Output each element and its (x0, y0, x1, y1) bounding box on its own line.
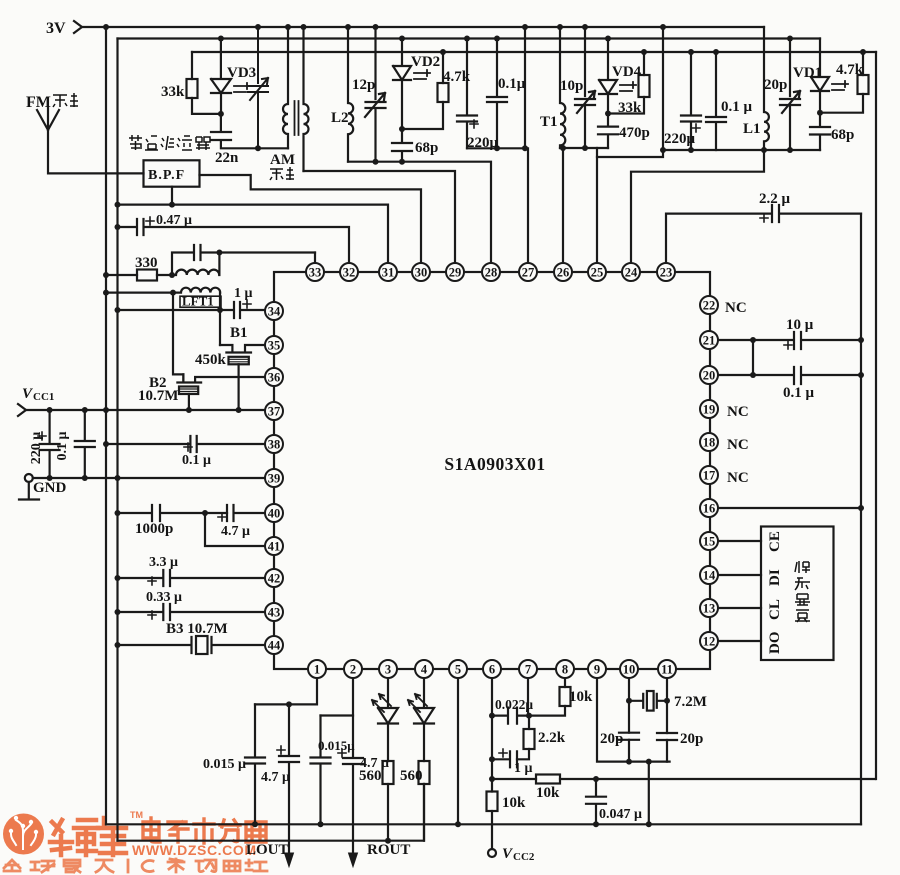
svg-text:68p: 68p (831, 127, 854, 143)
capacitor 1000p to pin 40 (118, 505, 228, 521)
arrow ROUT (349, 853, 358, 867)
svg-text:13: 13 (703, 601, 716, 615)
pin 33 (306, 263, 324, 281)
capacitor 0.015u (pin 2) (311, 716, 331, 825)
pin 22 (700, 296, 718, 314)
wire pin 24 to L1 tank (631, 150, 764, 263)
svg-text:20p: 20p (680, 731, 703, 747)
wire crystal net to supply line (648, 762, 650, 825)
node bottom ground junction (385, 838, 391, 844)
terminal VCC2 (488, 849, 496, 857)
inductor AM antenna right winding (304, 27, 309, 171)
diode VD4 varactor (599, 39, 617, 114)
pin 39 (265, 469, 283, 487)
wire pin 10 column (628, 678, 630, 762)
pin 14 (700, 566, 718, 584)
svg-text:41: 41 (268, 539, 281, 553)
svg-text:6: 6 (489, 662, 495, 676)
svg-text:22n: 22n (215, 150, 239, 166)
varicap 10p (575, 27, 595, 148)
wire right bus B (875, 52, 877, 779)
capacitor 470p (598, 114, 618, 149)
capacitor 4.7u (ROUT) (343, 716, 363, 859)
pin 27 (519, 263, 537, 281)
pin 8 (556, 660, 574, 678)
svg-text:220μ: 220μ (664, 131, 696, 147)
svg-text:17: 17 (703, 468, 716, 482)
pin 3 (379, 660, 397, 678)
svg-text:11: 11 (661, 662, 673, 676)
svg-text:19: 19 (703, 402, 716, 416)
diode VD3 varactor (211, 39, 231, 114)
svg-text:23: 23 (660, 265, 673, 279)
svg-text:0.015μ: 0.015μ (318, 738, 355, 753)
svg-text:31: 31 (382, 265, 395, 279)
svg-text:CC2: CC2 (513, 851, 535, 863)
svg-text:18: 18 (703, 435, 716, 449)
svg-text:4.7 μ: 4.7 μ (261, 770, 290, 785)
resistor 4.7k (VD2 branch) (402, 52, 443, 129)
wire 3V left drop x=106 (105, 27, 107, 824)
svg-text:29: 29 (449, 265, 462, 279)
capacitor 220u (first) (457, 39, 477, 149)
capacitor 0.047u (586, 779, 606, 824)
capacitor 0.022u (492, 708, 529, 724)
pin 1 (308, 660, 326, 678)
svg-text:DO: DO (767, 632, 783, 655)
wire L2 tank bottom to pin 28 (348, 162, 491, 263)
svg-text:40: 40 (268, 506, 281, 520)
svg-text:12: 12 (703, 634, 716, 648)
crystal B3 10.7M to pin 44 (118, 637, 266, 653)
svg-text:5: 5 (455, 662, 461, 676)
node VD4 junction (560, 111, 611, 152)
svg-text:DI: DI (767, 569, 783, 586)
svg-text:9: 9 (594, 662, 600, 676)
node 3V drop junction (660, 147, 694, 153)
varicap tuning (VD3 tank) (248, 27, 268, 148)
node LFT1 junctions (103, 290, 223, 313)
svg-text:NC: NC (725, 300, 747, 316)
svg-text:12p: 12p (352, 77, 375, 93)
wire T1 tank bottom (560, 147, 608, 149)
wire pin 14 (718, 574, 761, 576)
wire pin 12 (718, 640, 761, 642)
resistor 4.7k (VD1 branch) (820, 52, 863, 113)
svg-text:20: 20 (703, 368, 716, 382)
node VD1/L1 junctions (761, 110, 823, 153)
svg-text:32: 32 (343, 265, 356, 279)
pin 44 (265, 636, 283, 654)
resistor 2.2k (528, 716, 530, 729)
svg-text:16: 16 (703, 501, 716, 515)
svg-text:10: 10 (623, 662, 636, 676)
svg-text:NC: NC (727, 437, 749, 453)
wire pin 7 column (527, 678, 529, 716)
capacitor 0.33u to pin 43 (118, 604, 266, 620)
pin 29 (446, 263, 464, 281)
LED (pin 3) (378, 678, 398, 761)
svg-text:L2: L2 (331, 110, 349, 126)
svg-text:0.1 μ: 0.1 μ (55, 431, 70, 460)
svg-text:LOUT: LOUT (246, 842, 289, 858)
capacitor 1u (pin 6) (492, 751, 517, 767)
svg-text:1000p: 1000p (135, 521, 173, 537)
svg-text:33: 33 (309, 265, 322, 279)
block B.P.F (144, 160, 200, 186)
svg-text:0.1 μ: 0.1 μ (721, 99, 753, 115)
pin 6 (483, 660, 501, 678)
wire pin 16 (718, 507, 861, 509)
wire VCC1 line to pin 37 (26, 409, 266, 411)
pin 15 (700, 532, 718, 550)
pin 17 (700, 466, 718, 484)
svg-text:37: 37 (268, 404, 281, 418)
svg-text:VD3: VD3 (227, 65, 256, 81)
svg-text:3V: 3V (46, 20, 66, 37)
svg-text:4.7 μ: 4.7 μ (221, 524, 250, 539)
wire pin 11 column (666, 678, 668, 762)
pin 20 (700, 366, 718, 384)
svg-text:CE: CE (767, 531, 783, 552)
svg-text:AM: AM (270, 152, 295, 168)
svg-text:27: 27 (522, 265, 535, 279)
pin 41 (265, 537, 283, 555)
capacitor 220u (VCC1) (40, 410, 60, 478)
pin 16 (700, 499, 718, 517)
svg-text:B1: B1 (230, 325, 248, 341)
varicap 12p (365, 27, 386, 162)
wire pin 9 column (597, 678, 670, 762)
svg-text:VD1: VD1 (793, 65, 822, 81)
svg-text:0.33 μ: 0.33 μ (146, 590, 182, 605)
resistor 560 (pin 4) (419, 761, 430, 784)
svg-text:44: 44 (268, 638, 281, 652)
pin 26 (554, 263, 572, 281)
node rail1 junctions (103, 24, 666, 30)
pin 19 (700, 400, 718, 418)
label microprocessor chinese vertical (795, 561, 810, 622)
node pin6 junctions (489, 713, 532, 782)
watermark text 全球最大IC采购网站 (4, 859, 267, 872)
capacitor 0.47u to pin 32 (118, 219, 350, 263)
terminal 3V chevron (74, 21, 82, 33)
pin 38 (265, 435, 283, 453)
capacitor 0.1u to pin 38 (106, 436, 266, 452)
svg-text:10k: 10k (536, 785, 560, 801)
varicap 20p (780, 39, 800, 151)
node BPF bottom junctions (115, 202, 176, 208)
svg-text:220 μ: 220 μ (29, 432, 44, 465)
svg-text:LFT1: LFT1 (182, 294, 214, 309)
svg-text:3.3 μ: 3.3 μ (149, 555, 178, 570)
pin 30 (412, 263, 430, 281)
svg-text:0.1 μ: 0.1 μ (783, 385, 815, 401)
resistor 10k (VCC2) (487, 792, 498, 812)
svg-text:26: 26 (557, 265, 570, 279)
svg-text:2.2k: 2.2k (538, 730, 566, 746)
node rail3 junctions (440, 49, 866, 55)
inductor (330 tank coil) (172, 253, 219, 276)
node GND line junctions (47, 475, 121, 481)
svg-text:20p: 20p (600, 731, 623, 747)
pin 24 (622, 263, 640, 281)
wire 220u/0.1u line to pin 27 (467, 148, 528, 263)
svg-text:10k: 10k (569, 689, 593, 705)
svg-text:33k: 33k (618, 100, 642, 116)
pin 18 (700, 433, 718, 451)
watermark text 维库 (50, 818, 126, 855)
pin 5 (449, 660, 467, 678)
inductor LFT1 (106, 288, 220, 345)
svg-text:30: 30 (415, 265, 428, 279)
pin 25 (588, 263, 606, 281)
svg-text:VD4: VD4 (612, 64, 642, 80)
inductor L1 (764, 27, 769, 150)
resistor 10k (horizontal) (492, 778, 536, 780)
pin 10 (620, 660, 638, 678)
arrow LOUT (285, 853, 294, 867)
inductor T1 (560, 27, 565, 148)
pin 2 (344, 660, 362, 678)
wire pin 13 (718, 607, 761, 609)
label bandpass chinese (129, 135, 210, 150)
wire tank to pin 26 (562, 148, 564, 263)
pin 32 (340, 263, 358, 281)
diode VD1 varactor (811, 39, 829, 113)
crystal 7.2M (629, 694, 667, 708)
svg-text:0.47 μ: 0.47 μ (156, 213, 192, 228)
svg-text:35: 35 (268, 338, 281, 352)
svg-text:10p: 10p (560, 78, 583, 94)
pin 4 (415, 660, 433, 678)
svg-text:0.1 μ: 0.1 μ (182, 453, 211, 468)
svg-text:21: 21 (703, 333, 716, 347)
AM antenna core bars (295, 101, 299, 135)
svg-text:NC: NC (727, 404, 749, 420)
svg-text:7: 7 (525, 662, 531, 676)
capacitor (330/LFT1 tank cap) (172, 245, 315, 275)
svg-text:10k: 10k (502, 795, 526, 811)
watermark text 电子市场网 (143, 818, 266, 843)
wire AM secondary to pin 29 (304, 171, 456, 263)
block microprocessor (761, 527, 834, 661)
svg-text:B3 10.7M: B3 10.7M (166, 621, 228, 637)
svg-text:3: 3 (385, 662, 391, 676)
svg-text:10 μ: 10 μ (786, 317, 814, 333)
wire pin 1 branch (255, 678, 317, 704)
pin 42 (265, 569, 283, 587)
crystal B1 450k (220, 345, 266, 353)
capacitor 220u (second) (681, 52, 701, 150)
capacitor 0.1u (pin 20) (718, 367, 861, 384)
wire pin 6 column (491, 678, 493, 792)
svg-text:33k: 33k (161, 84, 185, 100)
node VD3 tank junctions (218, 111, 261, 151)
pin 7 (519, 660, 537, 678)
wire LFT1 left leg down to B2 (173, 293, 183, 381)
svg-text:25: 25 (591, 265, 604, 279)
capacitor 10u (pin 21) (718, 332, 861, 349)
node 0.47u junction (115, 224, 121, 230)
pin 28 (482, 263, 500, 281)
svg-text:NC: NC (727, 470, 749, 486)
svg-text:4: 4 (421, 662, 428, 676)
svg-text:38: 38 (268, 437, 281, 451)
node right side junctions (750, 337, 864, 511)
capacitor 0.1u (first) (487, 39, 507, 149)
wire top rail 3 (192, 51, 876, 53)
node pin42 junction (115, 575, 121, 581)
node pin38 junction (103, 441, 109, 447)
wire pin 2 branch (321, 678, 354, 716)
svg-text:0.047 μ: 0.047 μ (599, 807, 642, 822)
resistor 330 (106, 274, 172, 276)
wire BPF bottom output to pin 31 (118, 187, 389, 263)
svg-text:WWW.DZSC.COM: WWW.DZSC.COM (132, 842, 257, 858)
pin 36 (265, 368, 283, 386)
capacitor 4.7u (LOUT) (279, 704, 299, 858)
svg-text:39: 39 (268, 471, 281, 485)
svg-text:330: 330 (135, 255, 158, 271)
watermark logo circle (3, 814, 44, 855)
node VD2 junctions (373, 126, 406, 165)
wire tank line to 3V drop (597, 27, 663, 157)
svg-text:14: 14 (703, 568, 716, 582)
svg-text:1 μ: 1 μ (234, 286, 253, 301)
svg-text:15: 15 (703, 534, 716, 548)
svg-text:1: 1 (314, 662, 320, 676)
svg-text:T1: T1 (540, 114, 558, 130)
wire 3V drop to pin27 line (524, 27, 526, 148)
wire bottom supply line (106, 823, 861, 825)
wire bottom ground line (118, 784, 425, 841)
IC S1A0903X01 body (274, 272, 710, 669)
capacitor 3.3u to pin 42 (118, 570, 266, 586)
terminal GND (25, 474, 33, 482)
pin 43 (265, 603, 283, 621)
node pin43 junction (115, 609, 121, 615)
svg-text:450k: 450k (195, 352, 227, 368)
svg-text:36: 36 (268, 370, 281, 384)
node crystal junctions (626, 698, 670, 765)
svg-text:B.P.F: B.P.F (148, 168, 185, 183)
pin 12 (700, 632, 718, 650)
svg-text:L1: L1 (743, 121, 761, 137)
capacitor 0.1u (VCC1) (75, 410, 95, 478)
pin 13 (700, 599, 718, 617)
svg-text:0.022μ: 0.022μ (495, 697, 533, 712)
wire BPF right output to pin 30 (200, 175, 422, 263)
svg-text:CC1: CC1 (33, 391, 54, 403)
svg-text:1 μ: 1 μ (514, 761, 533, 776)
wire 3V rail (top rail 1) (82, 26, 764, 28)
node pin40 junctions (115, 510, 209, 516)
pin 37 (265, 402, 283, 420)
wire L1 tank bottom line (663, 149, 820, 151)
wire to pin 41 (205, 513, 266, 546)
svg-text:0.1μ: 0.1μ (498, 76, 526, 92)
pin 9 (588, 660, 606, 678)
node bottom supply junctions (252, 821, 652, 827)
svg-text:34: 34 (268, 304, 281, 318)
svg-text:4.7k: 4.7k (443, 69, 471, 85)
svg-text:43: 43 (268, 605, 281, 619)
LED (pin 4) (414, 678, 434, 761)
node pin1 junction (286, 701, 292, 707)
wire ground left drop x=117.5 (116, 39, 118, 841)
node tank junctions (103, 250, 222, 279)
capacitor 20p (pin 10) (619, 733, 639, 740)
node pin27 line junctions (494, 145, 528, 151)
svg-text:0.015 μ: 0.015 μ (203, 757, 246, 772)
svg-text:GND: GND (33, 480, 67, 496)
pin 31 (379, 263, 397, 281)
terminal VCC1 chevron (18, 404, 26, 416)
box LFT1 label frame (180, 296, 221, 307)
node pin44 junction (115, 642, 121, 648)
resistor 560 (pin 3) (383, 761, 394, 784)
svg-text:68p: 68p (415, 140, 438, 156)
inductor L2 (348, 27, 353, 162)
capacitor 68p (VD1 tank) (810, 113, 830, 150)
antenna FM (37, 108, 144, 173)
svg-text:FM: FM (26, 94, 51, 111)
capacitor 0.015u (pin 1) (245, 704, 265, 824)
svg-text:S1A0903X01: S1A0903X01 (444, 454, 545, 474)
resistor 33k (VD4 branch) (608, 52, 644, 114)
wire pin 15 (718, 540, 761, 542)
svg-text:4.7k: 4.7k (836, 62, 864, 78)
node rail2 junctions (218, 36, 793, 42)
wire top rail 2 (ground bus) (118, 37, 821, 39)
svg-text:VD2: VD2 (411, 54, 440, 70)
pin 21 (700, 331, 718, 349)
svg-text:24: 24 (625, 265, 638, 279)
svg-text:220μ: 220μ (467, 135, 499, 151)
wire pin21-pin20 tie (752, 340, 754, 375)
node 10k line junction (593, 776, 599, 782)
svg-text:42: 42 (268, 571, 281, 585)
pin 35 (265, 336, 283, 354)
pin 34 (265, 302, 283, 320)
pin 40 (265, 504, 283, 522)
wire tank to pin 25 (596, 148, 598, 263)
resistor 33k (VD3 branch) (192, 52, 221, 114)
capacitor 0.1u (second) (706, 52, 726, 150)
capacitor 68p (VD2 tank) (392, 129, 412, 162)
wire GND line to pin 39 (33, 477, 266, 479)
diode VD2 varactor (393, 39, 411, 130)
inductor AM antenna left winding (283, 27, 288, 148)
svg-text:7.2M: 7.2M (674, 694, 707, 710)
crystal B2 10.7M (177, 374, 265, 382)
capacitor 22n (211, 114, 288, 148)
capacitor 4.7u (pin 40) (227, 505, 266, 521)
svg-text:2: 2 (350, 662, 356, 676)
wire right bus A (860, 214, 862, 825)
pin 11 (658, 660, 676, 678)
svg-text:22: 22 (703, 298, 716, 312)
svg-text:ROUT: ROUT (367, 842, 410, 858)
pin 23 (657, 263, 675, 281)
svg-text:560: 560 (400, 768, 423, 784)
svg-text:560: 560 (359, 768, 382, 784)
wire pin 5 to supply line (457, 678, 459, 824)
capacitor 20p (pin 11) (657, 733, 677, 740)
svg-text:10.7M: 10.7M (138, 388, 178, 404)
capacitor 1u to pin 34 (118, 302, 266, 318)
